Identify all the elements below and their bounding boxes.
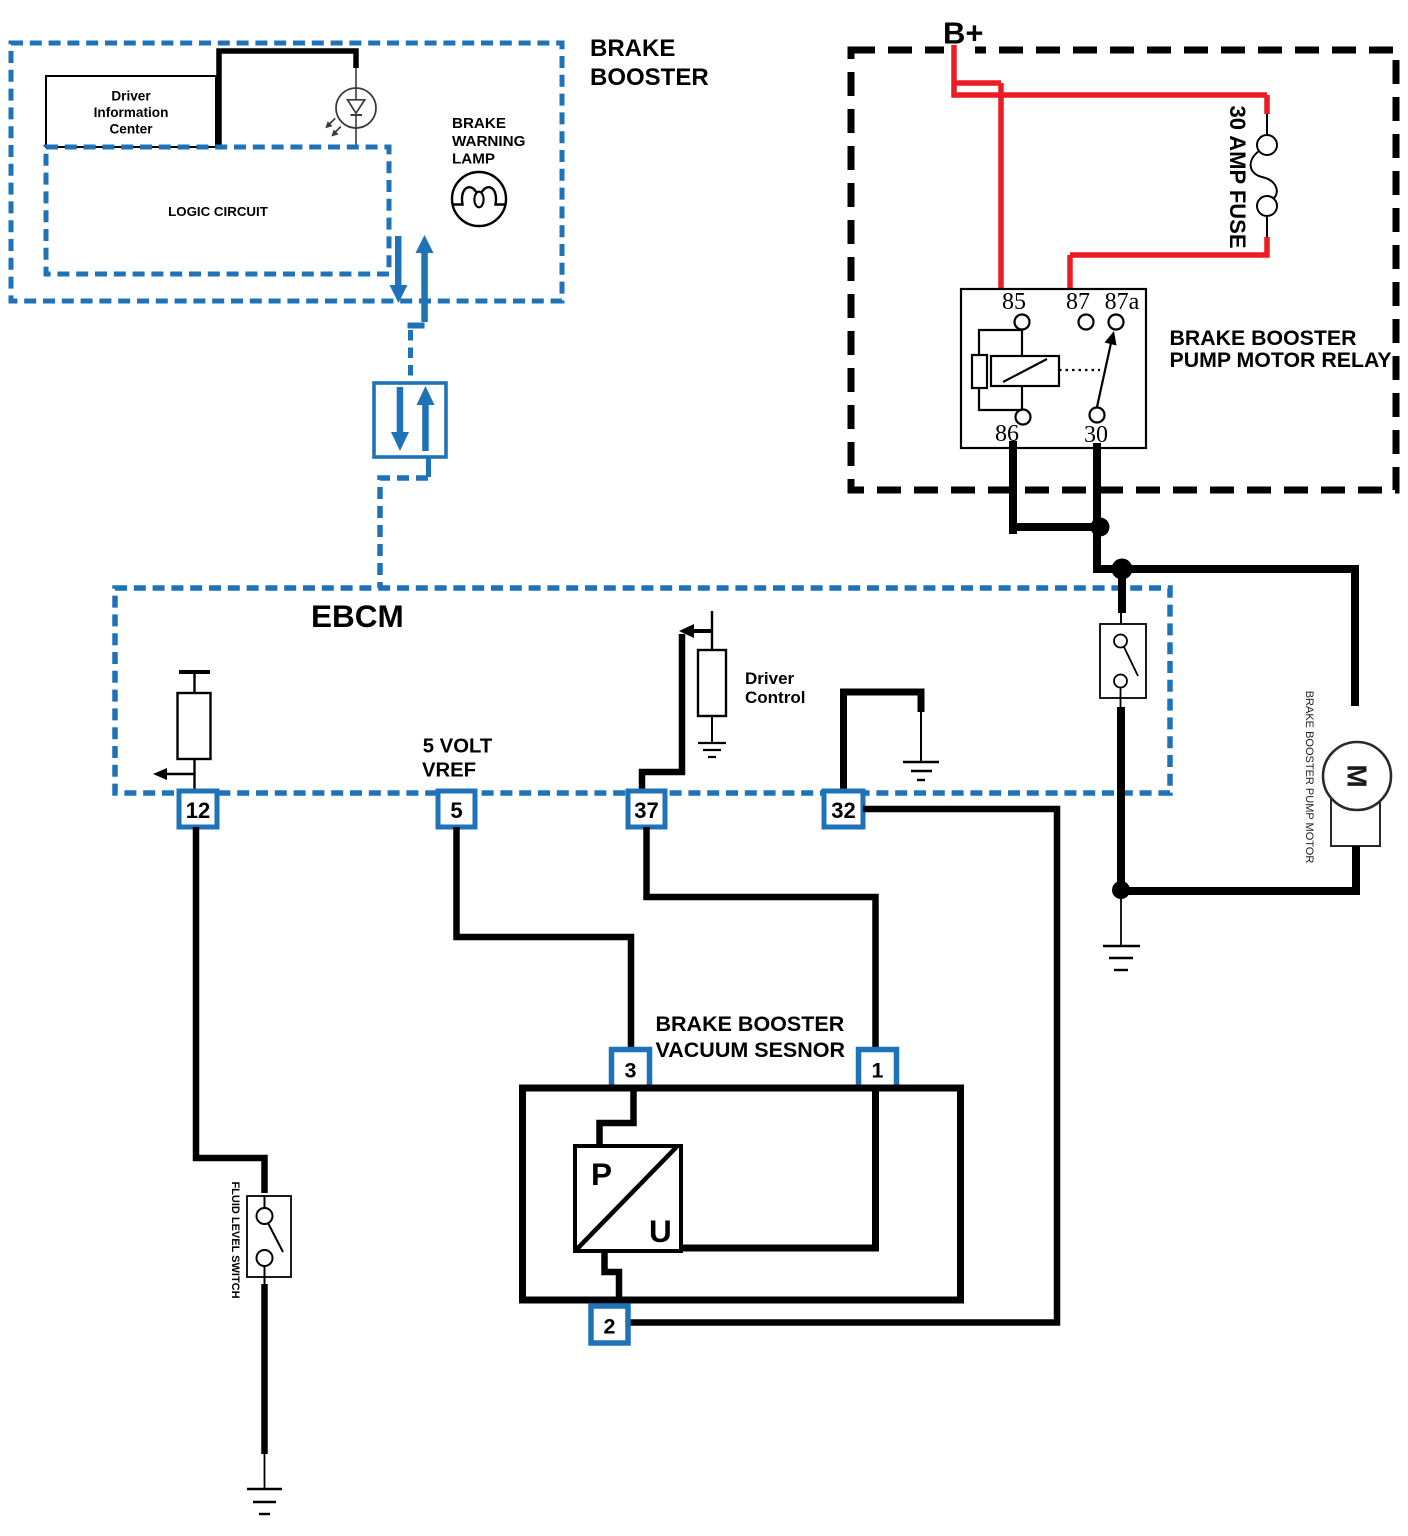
wire pin37 to driver control (642, 634, 682, 791)
svg-text:BRAKE BOOSTER: BRAKE BOOSTER (656, 1012, 845, 1036)
svg-text:LOGIC CIRCUIT: LOGIC CIRCUIT (168, 204, 268, 219)
wire P/U to pin2 (605, 1251, 620, 1306)
wire relay 30 down to motor branch (1097, 443, 1355, 706)
relay terminal 87 (1079, 315, 1094, 330)
wire dashed serial data lower (380, 478, 428, 588)
svg-text:LAMP: LAMP (452, 151, 495, 168)
pin 37 (628, 791, 665, 827)
pump motor M1 (1323, 742, 1391, 846)
svg-text:85: 85 (1002, 289, 1026, 315)
battery feed box (851, 50, 1396, 490)
svg-text:VREF: VREF (422, 760, 476, 782)
brake warning lamp L1 (452, 172, 506, 226)
ground for driver control (698, 743, 726, 757)
wire DIC to LED (219, 51, 356, 147)
serial data arrow down (390, 236, 408, 303)
pin 5 (438, 791, 475, 827)
relay terminal 85 (1015, 315, 1030, 330)
brake booster vacuum sensor box B1 (523, 1088, 961, 1300)
wire dashed serial data upper (408, 323, 425, 329)
svg-text:1: 1 (872, 1059, 884, 1083)
svg-text:30 AMP FUSE: 30 AMP FUSE (1225, 105, 1250, 248)
relay K1 box (961, 289, 1146, 448)
wire pin12 to fluid level switch (196, 827, 265, 1193)
wire pin5 to sensor pin3 (457, 827, 632, 1051)
ground fluid level switch (247, 1489, 282, 1514)
label 5 VOLT VREF (422, 736, 493, 782)
relay terminal 86 (1016, 410, 1031, 425)
svg-text:BRAKE: BRAKE (452, 115, 506, 132)
svg-text:P: P (591, 1156, 612, 1192)
wire junction to pump switch (1118, 569, 1126, 613)
svg-text:BRAKE BOOSTER PUMP MOTOR: BRAKE BOOSTER PUMP MOTOR (1303, 691, 1315, 864)
pump internal switch S2 (1100, 624, 1146, 707)
ground in EBCM at pin32 (903, 762, 939, 780)
wire pin1 to P/U cell (681, 1088, 876, 1248)
relay terminal 87a (1109, 315, 1124, 330)
svg-text:Control: Control (745, 688, 805, 707)
svg-text:VACUUM SESNOR: VACUUM SESNOR (656, 1038, 846, 1062)
svg-text:U: U (649, 1213, 672, 1249)
wire to ground (1120, 894, 1122, 945)
wire red fuse to relay 87 (1070, 95, 1270, 289)
label Driver Information Center (94, 89, 169, 137)
label BRAKE BOOSTER PUMP MOTOR RELAY (1170, 326, 1392, 372)
svg-text:Information: Information (94, 105, 169, 120)
inline connector C1 (374, 383, 446, 457)
EBCM module box (115, 588, 1170, 793)
pin 32 (824, 791, 863, 827)
relay coil (991, 330, 1059, 410)
svg-text:BOOSTER: BOOSTER (590, 64, 709, 91)
relay terminal 30 (1090, 408, 1105, 423)
svg-text:2: 2 (604, 1315, 616, 1339)
junction B (1112, 559, 1133, 580)
relay switch arm (1097, 343, 1111, 407)
pin 3 (612, 1050, 650, 1088)
wire motor return (1125, 846, 1356, 891)
pressure transducer P/U (575, 1146, 681, 1251)
serial data arrow up (416, 235, 434, 322)
svg-text:WARNING: WARNING (452, 133, 525, 150)
svg-text:B+: B+ (943, 16, 984, 51)
label BRAKE BOOSTER (590, 35, 709, 91)
svg-text:M: M (1342, 764, 1373, 787)
pin 12 (179, 791, 217, 827)
wire switch to motor return (1117, 707, 1125, 889)
svg-text:Driver: Driver (745, 669, 795, 688)
svg-text:EBCM: EBCM (311, 598, 404, 634)
wire pin37 to sensor pin1 (647, 827, 876, 1051)
brake booster module box (11, 43, 562, 301)
label BRAKE WARNING LAMP (452, 115, 525, 168)
svg-text:12: 12 (186, 798, 210, 823)
svg-text:FLUID LEVEL SWITCH: FLUID LEVEL SWITCH (229, 1181, 241, 1298)
junction A (1091, 518, 1110, 537)
svg-text:BRAKE: BRAKE (590, 35, 675, 62)
svg-text:PUMP MOTOR RELAY: PUMP MOTOR RELAY (1170, 348, 1392, 372)
svg-text:BRAKE BOOSTER: BRAKE BOOSTER (1170, 326, 1357, 350)
wire relay 86 to junction (1013, 441, 1100, 534)
fluid level switch S1 (247, 1196, 291, 1284)
svg-text:3: 3 (625, 1059, 637, 1083)
wire pin3 to P/U cell (600, 1088, 634, 1146)
svg-text:32: 32 (831, 798, 855, 823)
LED indicator D1 (325, 88, 376, 147)
svg-text:Driver: Driver (111, 89, 151, 104)
wire red B+ feed (952, 45, 1268, 289)
junction C (1112, 881, 1130, 899)
logic circuit box (46, 147, 389, 274)
svg-text:37: 37 (634, 798, 658, 823)
driver control transistor Q1 (684, 611, 726, 743)
pin 2 (591, 1306, 628, 1343)
wire solid below connector (426, 457, 431, 477)
fuse F1 30 AMP (1251, 114, 1277, 237)
pin 1 (859, 1050, 897, 1088)
wire pin32 ground loop (844, 692, 922, 791)
svg-text:Center: Center (109, 122, 153, 137)
ground pump motor (1103, 946, 1140, 970)
wire LED anode lead (355, 68, 357, 100)
svg-text:87a: 87a (1105, 289, 1140, 315)
relay coil parallel resistor (972, 330, 1022, 410)
svg-text:5: 5 (450, 798, 462, 823)
resistor R1 in EBCM (178, 672, 211, 791)
wire pin32 to sensor pin2 (628, 809, 1057, 1323)
label Driver Control (745, 669, 805, 707)
arrow output left from resistor (153, 768, 194, 780)
wire switch to ground (261, 1284, 268, 1454)
svg-text:87: 87 (1066, 289, 1090, 315)
label BRAKE BOOSTER VACUUM SESNOR (656, 1012, 846, 1062)
svg-text:5 VOLT: 5 VOLT (423, 736, 493, 758)
relay contact link dotted (1059, 369, 1100, 371)
driver information center U2 (46, 76, 216, 147)
